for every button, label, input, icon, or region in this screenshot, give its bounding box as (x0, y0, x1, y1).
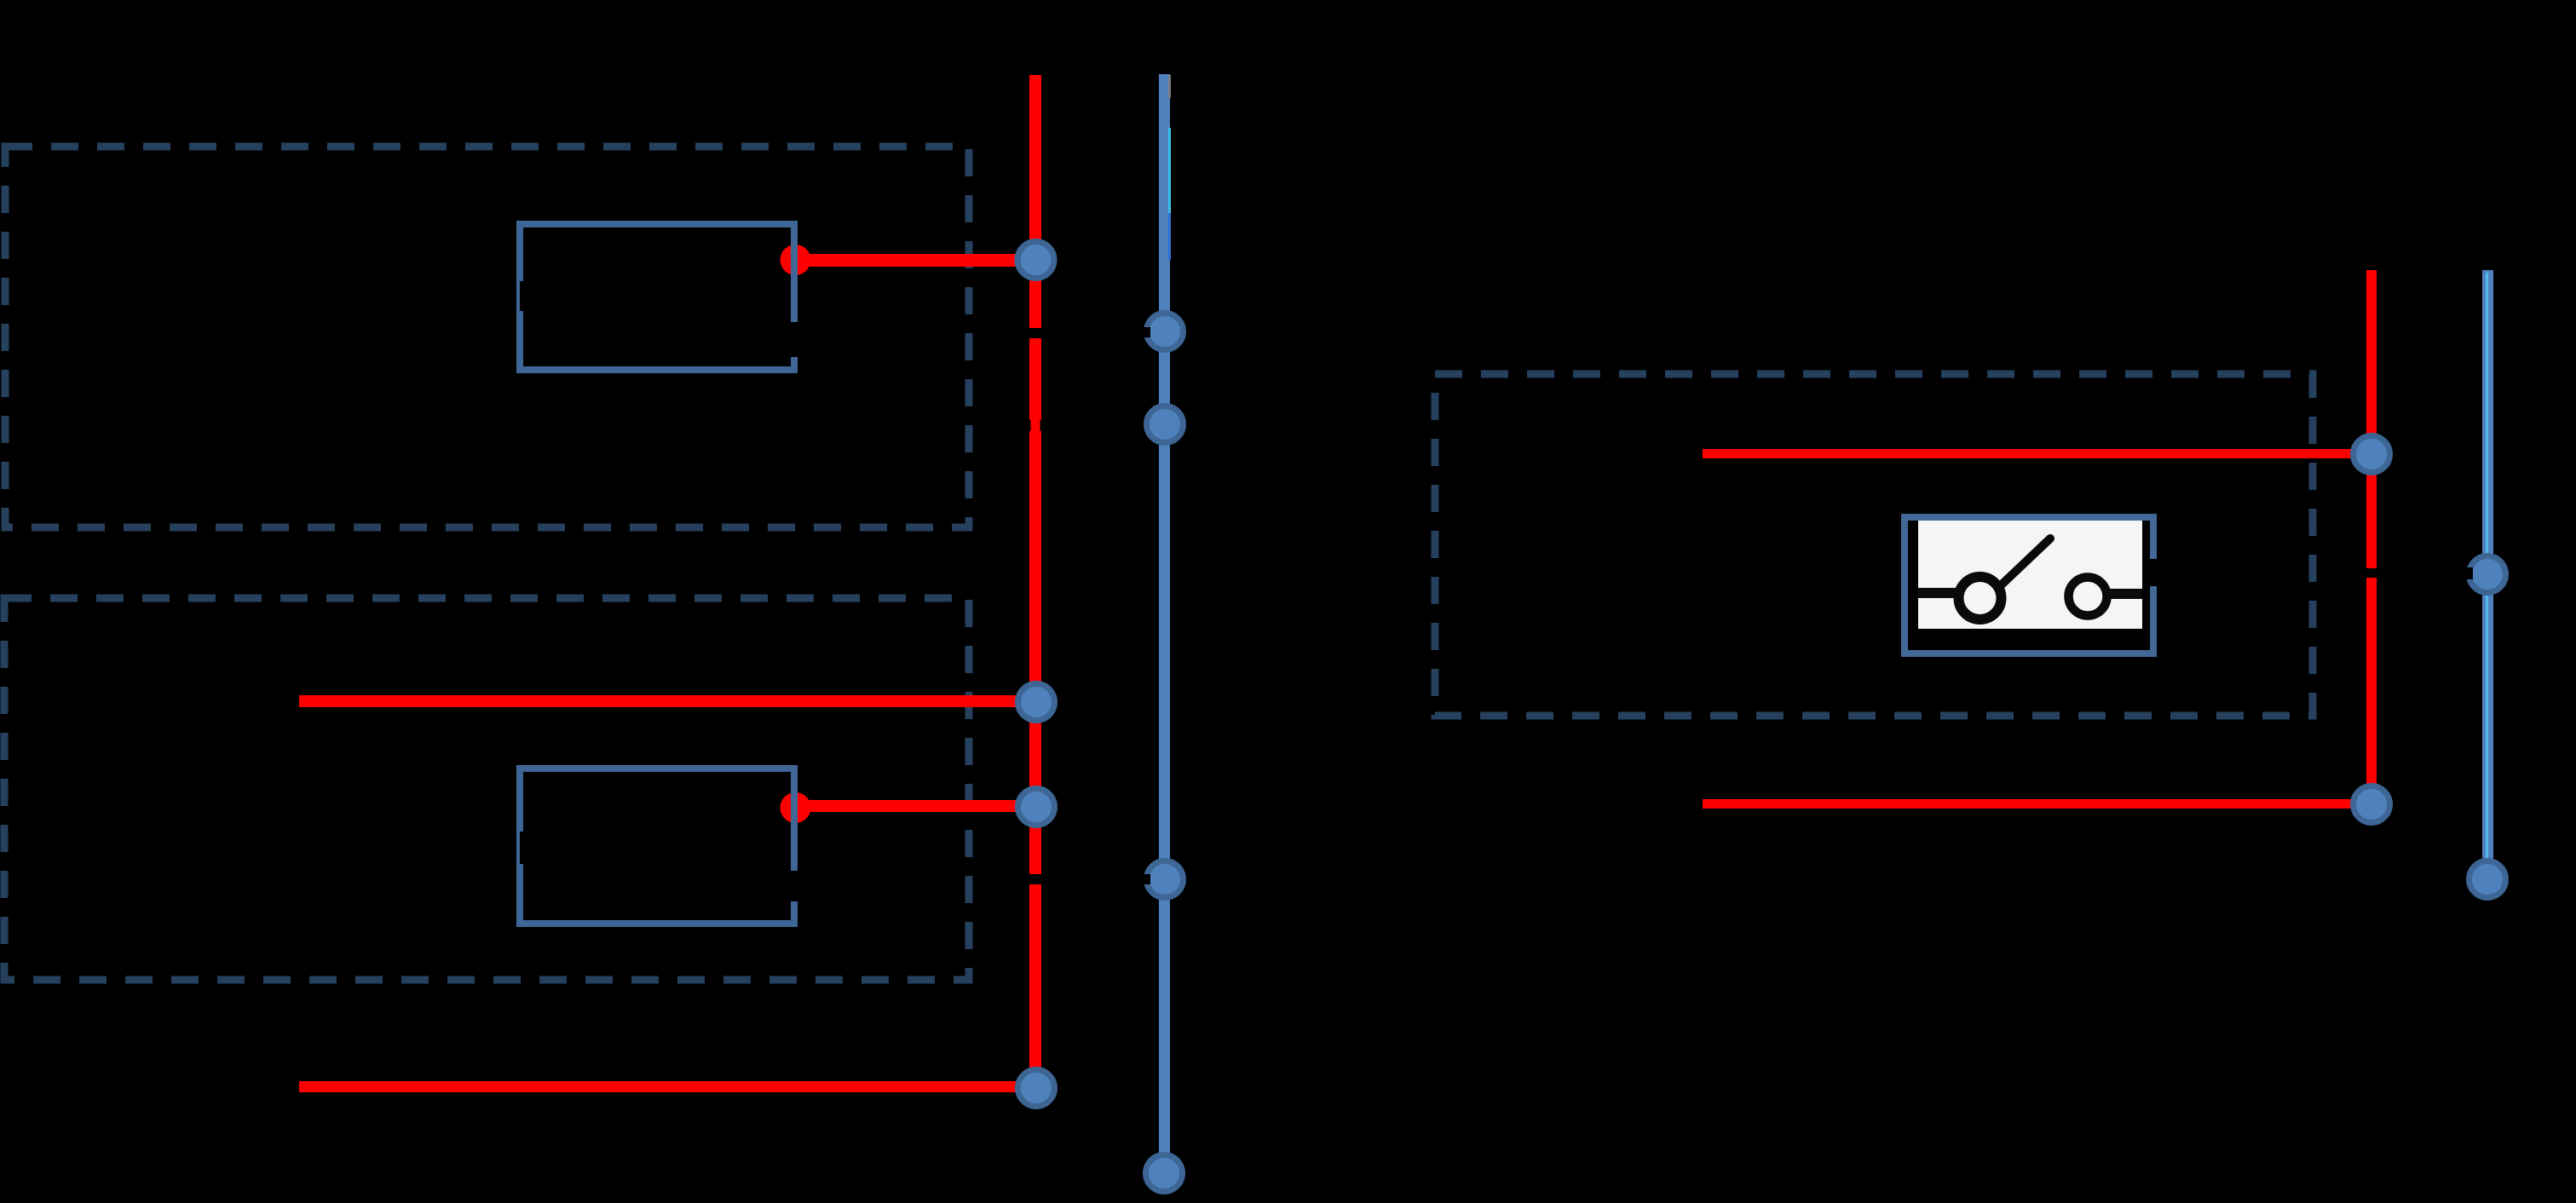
hot vertical bus V1 segment 3 (1029, 884, 1041, 1088)
device box S1 (top left solid box) (520, 224, 799, 370)
switch SW1 symbol: right contact circle (2069, 578, 2107, 616)
junction dot J1 on V1 (1017, 242, 1054, 279)
neutral dot on N1 at feed 2 (1147, 406, 1184, 443)
junction dot J4 on V1 (bottom) (1018, 1070, 1055, 1107)
hot vertical bus V1 segment 2 (1029, 338, 1041, 874)
switch SW1 symbol: right lead (2109, 589, 2142, 599)
red terminal dot on S2 (781, 792, 811, 823)
red terminal dot on S1 (781, 245, 811, 275)
black wire notches crossing V1 (1029, 420, 1031, 431)
switch SW1 symbol: blade (2000, 538, 2050, 586)
dashed enclosure box 3 (right, switch loop) (1435, 374, 2313, 716)
neutral vertical line N1 (left blue) (1159, 74, 1171, 1173)
neutral dot on N1 at feed 3 (1142, 861, 1184, 898)
red wire F (switch loop bottom) to bus V2 (1703, 799, 2371, 809)
hot vertical bus V1 segment 1 (1029, 75, 1041, 328)
neutral vertical line N2 (right blue) (2482, 270, 2493, 880)
switch SW1 symbol: left contact circle (1959, 577, 2002, 619)
switch SW1 body (1905, 517, 2160, 653)
red wire A (open end) to bus V1 (299, 695, 1036, 707)
switch SW1 symbol: left lead (1918, 588, 1957, 598)
red wire C (open end, bottom) to bus V1 (299, 1081, 1036, 1092)
junction dot J3 on V1 (1018, 789, 1055, 826)
junction dot J6 on V2 (bottom) (2354, 786, 2390, 823)
hot vertical bus V2 segment 2 (right) (2366, 578, 2377, 804)
dashed enclosure box 2 (bottom left) (4, 598, 969, 980)
neutral dot on N2 (bottom end) (2469, 861, 2506, 898)
neutral dot on N2 at switch feed (2464, 556, 2506, 593)
dashed enclosure box 1 (top left) (5, 147, 969, 527)
device box S2 (bottom left solid box) (520, 768, 799, 924)
neutral dot on N1 (bottom end) (1146, 1155, 1183, 1192)
junction dot J5 on V2 (2354, 436, 2390, 473)
red wire E (switch loop top) to bus V2 (1703, 449, 2371, 458)
red wire from S2 terminal to bus V1 (799, 800, 1036, 812)
neutral dot on N1 at feed 1 (1142, 314, 1184, 350)
hot vertical bus V2 segment 1 (right) (2366, 270, 2377, 568)
red wire from S1 terminal to bus V1 (799, 254, 1036, 267)
junction dot J2 on V1 (1018, 684, 1055, 721)
